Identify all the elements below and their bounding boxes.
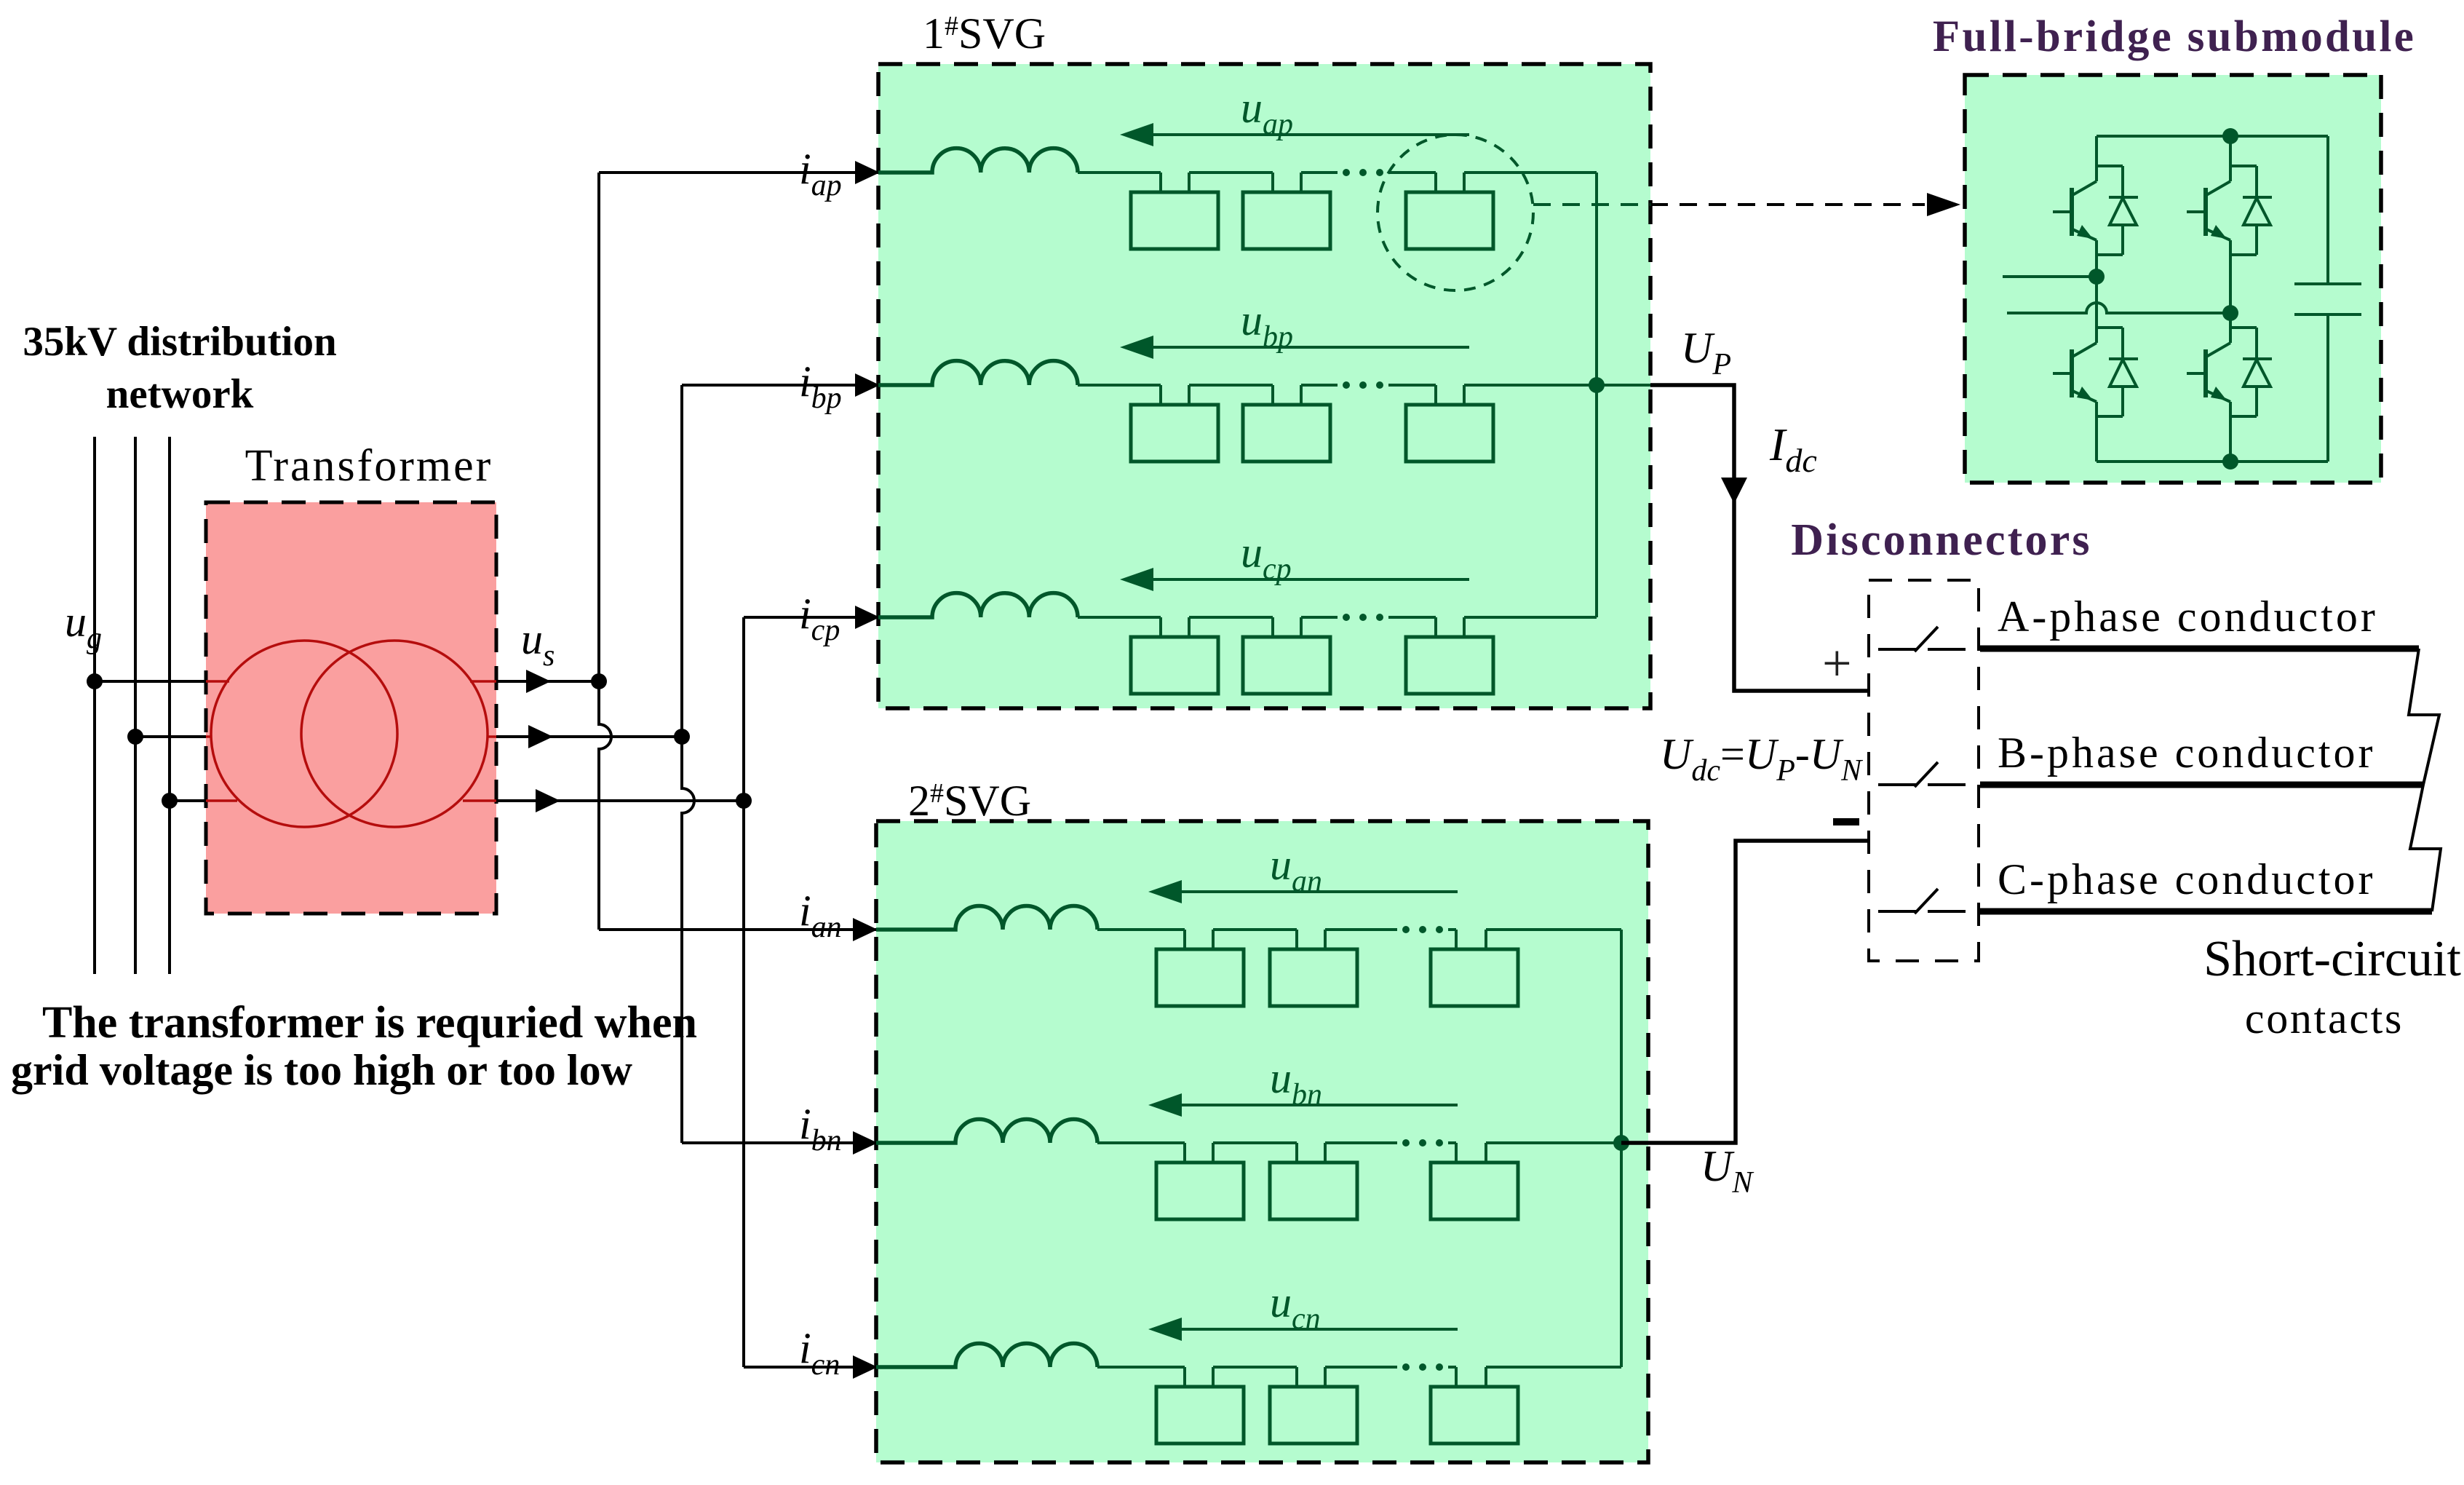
- wire an chain rail: [1097, 930, 1621, 949]
- short-circuit zigzag contacts: [2409, 649, 2441, 911]
- submodule box bn-3: [1431, 1163, 1518, 1219]
- submodule box bp-2: [1243, 405, 1330, 462]
- submodule box ap-1: [1131, 192, 1218, 249]
- svg-text:+: +: [1822, 634, 1852, 692]
- node dot right mid: [2222, 305, 2238, 321]
- wire: grid phase c into transformer: [170, 799, 206, 802]
- label i_cn: [799, 1324, 840, 1382]
- wire ap chain rail: [1078, 173, 1597, 192]
- node dot U_P junction: [1589, 377, 1605, 393]
- label u_ap: [1241, 84, 1293, 141]
- wire: 1#SVG right-side vertical bus: [1595, 173, 1598, 617]
- label Short-circuit contacts: [2203, 931, 2461, 1042]
- capacitor C1: [2294, 136, 2361, 462]
- B-phase conductor (thick): [1980, 782, 2423, 788]
- transistor Q2 (IGBT): [2187, 136, 2230, 313]
- wire transformer phase c output: [496, 789, 744, 812]
- svg-text:contacts: contacts: [2245, 994, 2404, 1042]
- svg-text:2#SVG: 2#SVG: [908, 777, 1031, 825]
- submodule box bp-3: [1406, 405, 1493, 462]
- inductor L_bp: [878, 361, 1078, 385]
- submodule box cp-2: [1243, 637, 1330, 694]
- arrow Q4 emitter: [2211, 387, 2227, 400]
- wire U_P to plus disconnector bus: [1650, 385, 1869, 691]
- wire i_bn feeder: [682, 1131, 878, 1155]
- node dot on riser b: [674, 729, 690, 745]
- label B-phase conductor: [1998, 729, 2376, 777]
- node dot on riser c: [736, 793, 752, 809]
- svg-text:network: network: [106, 371, 254, 417]
- arrow Q3 emitter: [2077, 387, 2093, 400]
- converter block 2#SVG dashed box: [876, 821, 1648, 1462]
- full-bridge top rail: [2097, 135, 2328, 138]
- wire: grid phase a into transformer: [95, 680, 206, 683]
- label U_P: [1681, 324, 1731, 381]
- submodule box cp-1: [1131, 637, 1218, 694]
- voltage arrow u_bn: [1148, 1093, 1458, 1117]
- label U_N: [1701, 1142, 1754, 1200]
- svg-text:Full-bridge submodule: Full-bridge submodule: [1933, 12, 2416, 61]
- node dot U_N junction: [1613, 1135, 1629, 1151]
- submodule box cp-3: [1406, 637, 1493, 694]
- minus terminal label: [1833, 818, 1859, 825]
- label u_g: [65, 598, 102, 655]
- node: bus dot phase c: [162, 793, 178, 809]
- transformer T1 dashed box: [206, 502, 496, 914]
- grid bus line 3: [168, 437, 171, 974]
- voltage arrow u_an: [1148, 880, 1458, 903]
- label i_bp: [799, 357, 842, 415]
- label C-phase conductor: [1998, 855, 2376, 903]
- svg-text:C-phase conductor: C-phase conductor: [1998, 855, 2376, 903]
- node dot left mid: [2089, 269, 2105, 285]
- submodule box bn-2: [1270, 1163, 1357, 1219]
- submodule box bn-1: [1156, 1163, 1244, 1219]
- full-bridge submodule dashed box: [1965, 75, 2381, 483]
- node: bus dot phase b: [127, 729, 143, 745]
- ellipsis dots an: [1402, 926, 1443, 933]
- svg-text:Transformer: Transformer: [245, 441, 493, 491]
- svg-text:B-phase conductor: B-phase conductor: [1998, 729, 2376, 777]
- label u_bn: [1270, 1054, 1322, 1112]
- wire bottom-left leg joint: [2095, 277, 2098, 300]
- label: Disconnectors: [1791, 515, 2092, 565]
- full-bridge bottom rail: [2097, 460, 2328, 463]
- transformer primary winding: [211, 641, 397, 827]
- svg-text:The transformer is requried wh: The transformer is requried when: [42, 998, 697, 1048]
- inductor L_cn: [876, 1344, 1097, 1368]
- plus terminal label: [1822, 634, 1852, 692]
- label u_bp: [1241, 296, 1293, 354]
- wire transformer phase b output: [496, 725, 682, 748]
- submodule box bp-1: [1131, 405, 1218, 462]
- wire U_N to minus disconnector bus: [1621, 841, 1869, 1143]
- label 1#SVG: [923, 9, 1046, 58]
- label A-phase conductor: [1998, 593, 2378, 641]
- ellipsis dots bp: [1343, 381, 1383, 389]
- node dot bottom: [2222, 454, 2238, 470]
- submodule box cn-1: [1156, 1387, 1244, 1444]
- grid bus line 1: [93, 437, 96, 974]
- wire bottom-right leg joint: [2229, 313, 2232, 329]
- voltage arrow u_ap: [1120, 123, 1469, 146]
- C-phase conductor (thick): [1980, 908, 2432, 915]
- wire i_cp feeder: [744, 606, 880, 629]
- transistor Q3 (IGBT): [2053, 298, 2097, 462]
- node dot top: [2222, 128, 2238, 144]
- label 2#SVG: [908, 777, 1031, 825]
- label u_cp: [1241, 528, 1292, 586]
- diode D-Q4: [2230, 328, 2272, 416]
- submodule box cn-2: [1270, 1387, 1357, 1444]
- wire cn chain rail: [1097, 1367, 1621, 1387]
- arrowhead I_dc (down): [1721, 478, 1747, 504]
- ellipsis dots cn: [1402, 1363, 1443, 1371]
- submodule box an-2: [1270, 949, 1357, 1006]
- svg-text:1#SVG: 1#SVG: [923, 9, 1046, 58]
- node dot on riser a (u_s junction): [591, 673, 607, 689]
- A-phase conductor (thick): [1980, 646, 2419, 652]
- label i_cp: [799, 590, 840, 647]
- inductor L_ap: [878, 148, 1078, 173]
- submodule box an-3: [1431, 949, 1518, 1006]
- wire: phase-c vertical riser x=1022: [742, 617, 745, 1367]
- wire i_cn feeder: [744, 1355, 878, 1379]
- wire submodule terminal 2 with hop: [2007, 303, 2230, 313]
- wire: phase-a vertical riser x=823 with hop over phase-b line: [599, 173, 611, 930]
- converter block 1#SVG dashed box: [878, 64, 1650, 708]
- disconnector switch B: [1878, 762, 1966, 787]
- arrow Q1 emitter: [2077, 225, 2093, 239]
- label: Full-bridge submodule: [1933, 12, 2416, 61]
- svg-text:A-phase conductor: A-phase conductor: [1998, 593, 2378, 641]
- label: Transformer: [245, 441, 493, 491]
- arrow Q2 emitter: [2211, 225, 2227, 239]
- svg-text:35kV distribution: 35kV distribution: [23, 319, 336, 365]
- label i_an: [799, 887, 842, 944]
- label u_cn: [1270, 1278, 1321, 1336]
- label u_an: [1270, 841, 1322, 898]
- transformer secondary winding: [301, 641, 488, 827]
- wire bn chain rail: [1097, 1143, 1648, 1163]
- diode D-Q2: [2230, 166, 2272, 255]
- inductor L_an: [876, 906, 1097, 930]
- disconnectors dashed box: [1869, 580, 1979, 961]
- inductor L_bn: [876, 1120, 1097, 1144]
- transformer internal red stubs: [206, 681, 496, 801]
- transistor Q4 (IGBT): [2187, 298, 2230, 462]
- label: 35kV distribution network: [23, 319, 336, 417]
- ellipsis dots ap: [1343, 169, 1383, 176]
- grid bus line 2: [134, 437, 137, 974]
- wire u_s phase a with arrowhead: [496, 670, 599, 693]
- submodule box ap-2: [1243, 192, 1330, 249]
- label I_dc: [1769, 419, 1817, 479]
- svg-text:Short-circuit: Short-circuit: [2203, 931, 2461, 987]
- wire i_bp feeder: [682, 373, 880, 397]
- dashed pointer line from circled submodule: [1533, 193, 1960, 216]
- label u_s: [521, 615, 555, 673]
- label i_bn: [799, 1100, 842, 1157]
- wire: phase-b vertical riser x=937 with hop over phase-c line: [682, 385, 694, 1143]
- svg-text:Disconnectors: Disconnectors: [1791, 515, 2092, 565]
- disconnector switch A: [1878, 627, 1966, 652]
- label U_dc = U_P - U_N: [1660, 730, 1863, 788]
- dashed highlight circle around submodule: [1378, 135, 1533, 290]
- inductor L_cp: [878, 593, 1078, 617]
- wire i_ap feeder: [599, 161, 880, 184]
- submodule box ap-3: [1406, 192, 1493, 249]
- transistor Q1 (IGBT): [2053, 136, 2097, 277]
- diode D-Q1: [2097, 166, 2138, 255]
- svg-text:grid voltage is too high or to: grid voltage is too high or too low: [11, 1046, 633, 1094]
- wire submodule terminal 1: [2003, 275, 2097, 278]
- wire: 2#SVG right-side vertical bus: [1620, 930, 1623, 1367]
- node: bus dot phase a: [87, 673, 103, 689]
- diode D-Q3: [2097, 328, 2138, 416]
- wire i_an feeder: [599, 918, 878, 941]
- submodule box cn-3: [1431, 1387, 1518, 1444]
- wire: grid phase b into transformer: [135, 735, 206, 738]
- label i_ap: [799, 145, 842, 202]
- voltage arrow u_cn: [1148, 1318, 1458, 1341]
- wire bp chain rail: [1078, 385, 1650, 405]
- ellipsis dots bn: [1402, 1139, 1443, 1147]
- ellipsis dots cp: [1343, 614, 1383, 621]
- voltage arrow u_bp: [1120, 336, 1469, 359]
- note text: transformer required: [11, 998, 697, 1094]
- disconnector switch C: [1878, 889, 1966, 914]
- submodule box an-1: [1156, 949, 1244, 1006]
- voltage arrow u_cp: [1120, 568, 1469, 591]
- wire cp chain rail: [1078, 617, 1597, 637]
